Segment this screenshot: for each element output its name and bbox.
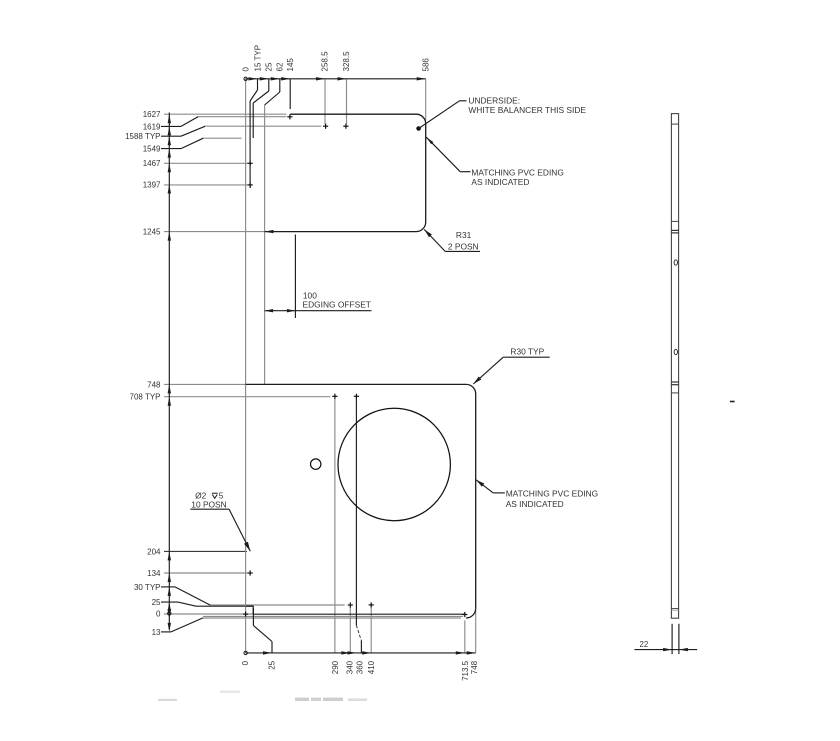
svg-text:748: 748	[470, 660, 479, 674]
svg-text:R31: R31	[456, 230, 472, 240]
svg-text:25: 25	[265, 62, 274, 71]
svg-text:1588 TYP: 1588 TYP	[125, 132, 160, 141]
svg-text:145: 145	[286, 58, 295, 72]
svg-text:410: 410	[367, 660, 376, 674]
svg-text:0: 0	[241, 660, 250, 665]
svg-text:13: 13	[152, 628, 161, 637]
svg-text:0: 0	[242, 67, 251, 72]
svg-text:AS INDICATED: AS INDICATED	[506, 499, 564, 509]
svg-text:586: 586	[421, 58, 430, 72]
svg-text:258.5: 258.5	[321, 51, 330, 72]
svg-text:290: 290	[331, 660, 340, 674]
svg-text:R30 TYP: R30 TYP	[510, 346, 544, 356]
svg-text:0: 0	[156, 610, 161, 619]
svg-text:25: 25	[267, 660, 276, 669]
svg-text:1245: 1245	[143, 228, 161, 237]
svg-text:1397: 1397	[143, 180, 161, 189]
svg-text:1627: 1627	[143, 110, 161, 119]
svg-text:WHITE BALANCER THIS SIDE: WHITE BALANCER THIS SIDE	[468, 105, 586, 115]
svg-text:328.5: 328.5	[342, 51, 351, 72]
svg-text:15 TYP: 15 TYP	[253, 45, 262, 72]
svg-text:AS INDICATED: AS INDICATED	[471, 177, 529, 187]
svg-text:30 TYP: 30 TYP	[134, 583, 161, 592]
svg-text:1549: 1549	[143, 145, 161, 154]
svg-text:134: 134	[147, 569, 161, 578]
svg-text:340: 340	[345, 660, 354, 674]
svg-text:748: 748	[147, 380, 161, 389]
svg-text:MATCHING PVC EDING: MATCHING PVC EDING	[471, 167, 563, 177]
svg-text:1619: 1619	[143, 122, 161, 131]
svg-text:25: 25	[152, 598, 161, 607]
svg-text:708 TYP: 708 TYP	[130, 392, 161, 401]
svg-text:10 POSN: 10 POSN	[191, 499, 226, 509]
svg-text:713.5: 713.5	[461, 660, 470, 681]
svg-text:1467: 1467	[143, 159, 161, 168]
svg-text:EDGING OFFSET: EDGING OFFSET	[303, 300, 371, 310]
svg-text:MATCHING PVC EDING: MATCHING PVC EDING	[506, 489, 598, 499]
svg-text:2 POSN: 2 POSN	[448, 242, 479, 252]
svg-text:204: 204	[147, 547, 161, 556]
svg-text:360: 360	[356, 660, 365, 674]
svg-text:62: 62	[276, 62, 285, 71]
svg-text:22: 22	[640, 640, 649, 649]
